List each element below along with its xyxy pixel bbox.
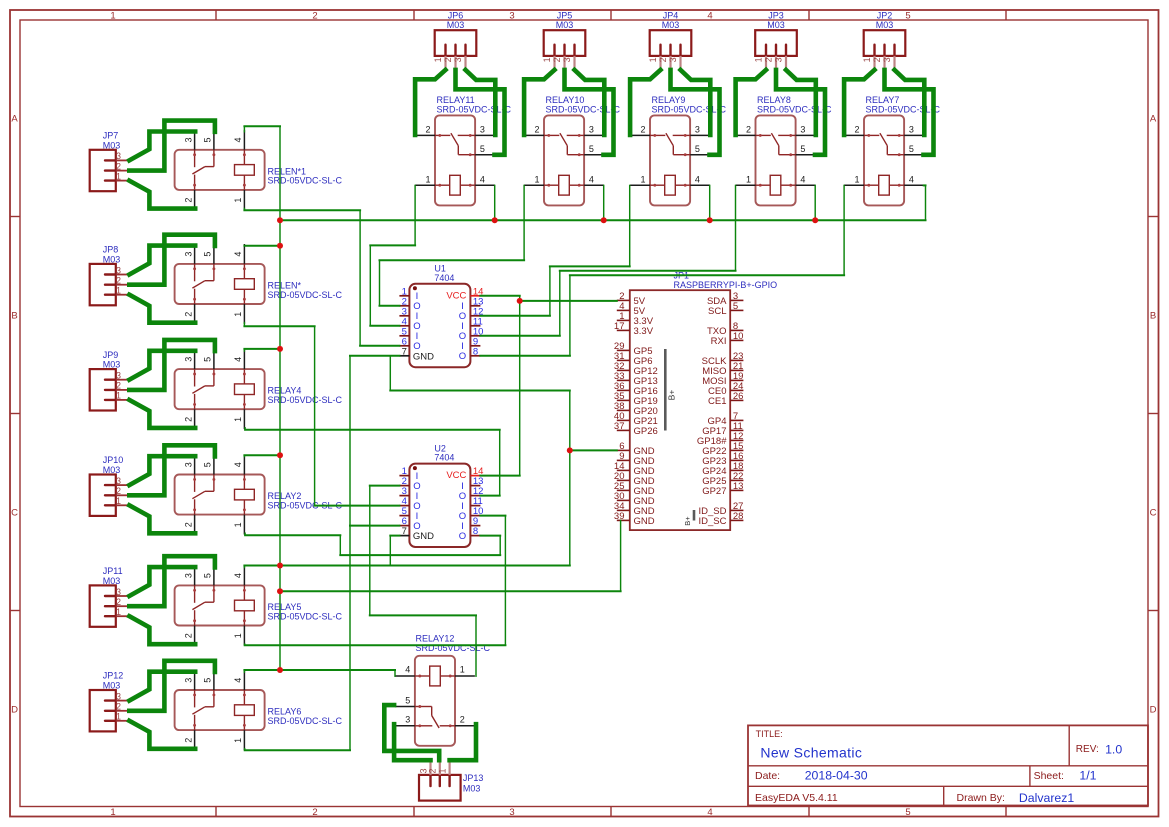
relay RELAY10 SRD-05VDC-SL-C (524, 95, 620, 205)
wire RELEN*1 pin1 to U1 pin6 (243, 208, 400, 347)
svg-text:4: 4 (233, 252, 243, 257)
svg-text:3: 3 (183, 252, 193, 257)
junction VCC 5V (517, 298, 523, 304)
wire RELAY9 pin4 to bus (709, 185, 711, 221)
frame zone letters right (1150, 113, 1157, 715)
svg-text:4: 4 (233, 137, 243, 142)
wire JP11 pin1 to RELAY5 pin2 (129, 616, 195, 644)
junction RELAY5 pin4 rail (277, 563, 283, 569)
wire JP4 pin3 to RELAY9 pin3 (681, 70, 711, 135)
junction GND rail x bus (277, 217, 283, 223)
wire JP3 pin3 to RELAY8 pin3 (786, 70, 816, 135)
wire RELAY11 pin1 to U1 pin4 (369, 185, 416, 327)
junction RELAY8 pin4 bus (812, 217, 818, 223)
wire JP6 pin1 to RELAY11 pin2 (415, 70, 445, 135)
wire GND bus to relay pin4 row (279, 185, 927, 221)
svg-text:2: 2 (312, 11, 317, 22)
frame ticks left (10, 217, 20, 611)
svg-text:B: B (11, 310, 17, 321)
svg-text:3: 3 (183, 573, 193, 578)
svg-text:1: 1 (110, 11, 115, 22)
op-amp U2 (7404 hex inverter) (399, 443, 483, 547)
svg-text:3: 3 (509, 11, 514, 22)
svg-text:M03: M03 (662, 20, 680, 30)
wire to JP1 pin6 GND (569, 449, 618, 451)
svg-text:5: 5 (909, 144, 914, 154)
svg-text:4: 4 (707, 807, 712, 818)
svg-text:5: 5 (203, 678, 213, 683)
svg-text:1: 1 (233, 312, 243, 317)
wire JP8 pin1 to RELEN* pin2 (129, 295, 195, 323)
svg-text:JP8: JP8 (103, 245, 119, 255)
svg-text:5: 5 (203, 137, 213, 142)
svg-text:1: 1 (233, 738, 243, 743)
svg-text:4: 4 (233, 573, 243, 578)
svg-text:Sheet:: Sheet: (1034, 770, 1064, 782)
wire VCC U1 pin14 to U2 pin14 and JP1 5V (479, 295, 520, 476)
frame zone letters left (11, 113, 18, 715)
svg-text:3: 3 (589, 125, 594, 135)
junction RELAY2 pin4 rail (277, 452, 283, 458)
svg-text:4: 4 (480, 174, 485, 184)
svg-text:26: 26 (733, 391, 744, 402)
svg-text:5: 5 (480, 144, 485, 154)
junction RELAY10 pin4 bus (601, 217, 607, 223)
svg-text:M03: M03 (103, 681, 121, 691)
wire U2 pin2 to RELAY12 pin1 (369, 485, 477, 677)
svg-text:10: 10 (733, 331, 744, 342)
svg-text:1: 1 (233, 633, 243, 638)
svg-text:37: 37 (614, 421, 625, 432)
svg-text:4: 4 (695, 174, 700, 184)
svg-text:Drawn By:: Drawn By: (957, 792, 1005, 804)
relay RELAY11 SRD-05VDC-SL-C (415, 95, 511, 205)
svg-text:JP12: JP12 (103, 671, 124, 681)
svg-text:Date:: Date: (755, 770, 780, 782)
wire RELAY10 pin4 to bus (603, 185, 605, 221)
relay RELEN* SRD-05VDC-SL-C (175, 244, 343, 324)
wire RELAY6 pin1 to U1 pin7 net (244, 748, 351, 751)
svg-text:2: 2 (746, 125, 751, 135)
junction GND JP1 pin6 (567, 447, 573, 453)
svg-text:M03: M03 (103, 360, 121, 370)
wire RELAY11 pin4 to bus (494, 185, 496, 221)
svg-text:4: 4 (707, 11, 712, 22)
relay RELAY12 SRD-05VDC-SL-C (395, 634, 491, 746)
svg-text:JP11: JP11 (103, 566, 123, 576)
svg-text:SRD-05VDC-SL-C: SRD-05VDC-SL-C (546, 104, 621, 114)
svg-text:3: 3 (183, 357, 193, 362)
svg-text:GND: GND (413, 531, 434, 542)
svg-text:M03: M03 (463, 784, 481, 794)
svg-text:7: 7 (402, 346, 407, 357)
svg-text:M03: M03 (103, 465, 121, 475)
svg-text:3: 3 (800, 125, 805, 135)
wire RELAY2 pin1 to U2 pin8 (244, 532, 501, 555)
wire JP7 pin2 to RELEN*1 pin5 (129, 121, 215, 171)
frame ticks right (1148, 217, 1159, 611)
relay RELAY6 SRD-05VDC-SL-C (175, 670, 343, 750)
svg-text:5: 5 (405, 695, 410, 705)
svg-text:JP9: JP9 (103, 350, 119, 360)
svg-text:B+: B+ (683, 516, 692, 526)
svg-text:5: 5 (905, 11, 910, 22)
wire JP12 pin3 to RELAY6 pin3 (129, 672, 195, 701)
svg-text:ID_SC: ID_SC (699, 516, 727, 527)
junction RELAY11 pin4 bus (492, 217, 498, 223)
svg-text:SRD-05VDC-SL-C: SRD-05VDC-SL-C (268, 290, 343, 300)
wire JP4 pin2 to RELAY9 pin5 (671, 70, 720, 155)
svg-text:O: O (459, 531, 466, 542)
wire JP5 pin1 to RELAY10 pin2 (524, 70, 554, 135)
wire JP4 pin1 to RELAY9 pin2 (630, 70, 660, 135)
svg-text:5: 5 (589, 144, 594, 154)
svg-text:2: 2 (425, 125, 430, 135)
svg-text:1: 1 (460, 665, 465, 675)
svg-text:3: 3 (183, 462, 193, 467)
svg-text:4: 4 (800, 174, 805, 184)
svg-text:4: 4 (233, 462, 243, 467)
svg-text:3: 3 (695, 125, 700, 135)
svg-text:RASPBERRYPI-B+-GPIO: RASPBERRYPI-B+-GPIO (674, 280, 778, 290)
connector JP8 (M03) (90, 245, 130, 306)
svg-text:SRD-05VDC-SL-C: SRD-05VDC-SL-C (268, 716, 343, 726)
connector JP11 (M03) (90, 566, 130, 627)
svg-text:3: 3 (183, 678, 193, 683)
relay RELAY5 SRD-05VDC-SL-C (175, 566, 343, 646)
svg-text:2: 2 (183, 198, 193, 203)
svg-text:1: 1 (233, 522, 243, 527)
svg-text:B+: B+ (667, 390, 677, 401)
svg-text:JP13: JP13 (463, 773, 484, 783)
wire JP2 pin2 to RELAY7 pin5 (885, 70, 934, 155)
svg-text:2: 2 (183, 633, 193, 638)
frame zone numbers bottom (110, 807, 910, 818)
wire JP12 pin2 to RELAY6 pin5 (129, 661, 215, 711)
connector JP12 (M03) (90, 671, 130, 732)
wire JP8 pin2 to RELEN* pin5 (129, 235, 215, 285)
svg-text:5: 5 (203, 252, 213, 257)
svg-text:2018-04-30: 2018-04-30 (805, 768, 868, 782)
wire RELAY12 pin5 to JP13 pin2 (384, 705, 439, 760)
svg-text:M03: M03 (447, 20, 465, 30)
svg-text:CE1: CE1 (708, 396, 726, 407)
svg-text:D: D (11, 704, 18, 715)
junction RELAY6 RELAY12 pin4 rail (277, 667, 283, 673)
svg-text:1: 1 (854, 174, 859, 184)
svg-text:2: 2 (854, 125, 859, 135)
svg-text:1: 1 (233, 417, 243, 422)
svg-text:2: 2 (183, 738, 193, 743)
frame ticks bottom (216, 807, 1006, 817)
svg-text:M03: M03 (767, 20, 785, 30)
svg-text:GP26: GP26 (634, 426, 658, 437)
wire JP2 pin1 to RELAY7 pin2 (844, 70, 874, 135)
wire RELAY10 pin1 to U1 pin2 (379, 185, 526, 307)
svg-text:2: 2 (534, 125, 539, 135)
wire JP3 pin2 to RELAY8 pin5 (776, 70, 825, 155)
svg-text:4: 4 (909, 174, 914, 184)
svg-text:3: 3 (509, 807, 514, 818)
wire JP11 pin2 to RELAY5 pin5 (129, 556, 215, 606)
wire JP9 pin1 to RELAY4 pin2 (129, 400, 195, 428)
relay RELAY2 SRD-05VDC-SL-C (175, 455, 343, 535)
frame ticks top (216, 10, 1006, 20)
svg-text:D: D (1150, 704, 1157, 715)
svg-text:13: 13 (733, 481, 744, 492)
svg-text:EasyEDA V5.4.11: EasyEDA V5.4.11 (755, 792, 838, 804)
wire JP1 pin39 GND down-left (279, 520, 622, 592)
connector JP13 (M03) (418, 760, 483, 800)
svg-text:7404: 7404 (434, 273, 454, 283)
wire JP10 pin1 to RELAY2 pin2 (129, 505, 195, 533)
svg-text:Dalvarez1: Dalvarez1 (1019, 791, 1075, 805)
svg-text:New Schematic: New Schematic (760, 745, 862, 761)
wire vertical GND rail left (279, 126, 281, 671)
wire JP11 pin3 to RELAY5 pin3 (129, 567, 195, 596)
wire JP7 pin1 to RELEN*1 pin2 (129, 181, 195, 209)
svg-text:M03: M03 (103, 255, 121, 265)
wire RELAY7 pin1 to U1 pin8 (479, 185, 845, 357)
svg-text:1: 1 (534, 174, 539, 184)
svg-text:RELAY12: RELAY12 (416, 634, 455, 644)
junction GND rail JP1 pin39 (277, 588, 283, 594)
svg-text:SRD-05VDC-SL-C: SRD-05VDC-SL-C (757, 104, 832, 114)
junction RELAY9 pin4 bus (707, 217, 713, 223)
wire RELAY12 pin2 to JP13 pin1 (450, 724, 476, 760)
svg-text:1: 1 (425, 174, 430, 184)
svg-text:GND: GND (634, 516, 655, 527)
svg-text:2: 2 (183, 522, 193, 527)
svg-text:M03: M03 (103, 576, 121, 586)
wire RELAY9 pin1 to U1 pin12 (479, 185, 630, 317)
frame zone numbers top (110, 11, 910, 22)
svg-text:B: B (1150, 310, 1156, 321)
svg-text:JP7: JP7 (103, 131, 119, 141)
svg-text:SRD-05VDC-SL-C: SRD-05VDC-SL-C (268, 395, 343, 405)
wire JP3 pin1 to RELAY8 pin2 (736, 70, 766, 135)
svg-text:4: 4 (589, 174, 594, 184)
wire RELAY5 pin4 to U1 GND net (243, 565, 570, 568)
wire RELAY8 pin1 to U1 pin10 (479, 185, 736, 337)
title text (755, 729, 1122, 805)
wire U1 GND to JP1 GND (389, 355, 571, 566)
svg-text:1: 1 (746, 174, 751, 184)
svg-text:4: 4 (405, 665, 410, 675)
svg-text:3: 3 (480, 125, 485, 135)
svg-text:C: C (11, 507, 18, 518)
wire U1 pin7 GND net vertical (349, 355, 400, 751)
connector JP6 (M03) (433, 11, 476, 70)
svg-text:1: 1 (640, 174, 645, 184)
svg-text:3.3V: 3.3V (634, 326, 654, 337)
svg-text:4: 4 (233, 678, 243, 683)
op-amp U1 (7404 hex inverter) (399, 264, 483, 368)
svg-text:3: 3 (183, 137, 193, 142)
relay RELAY8 SRD-05VDC-SL-C (736, 95, 832, 205)
connector JP10 (M03) (90, 455, 130, 516)
svg-text:VCC: VCC (446, 470, 466, 481)
svg-text:SRD-05VDC-SL-C: SRD-05VDC-SL-C (268, 611, 343, 621)
svg-text:5: 5 (695, 144, 700, 154)
svg-text:REV:: REV: (1076, 744, 1099, 755)
wire RELAY5 pin1 to U2 pin10 (244, 515, 507, 646)
svg-text:8: 8 (473, 526, 478, 537)
svg-text:5: 5 (800, 144, 805, 154)
wire branch to U2 pin6 (349, 525, 400, 527)
relay RELAY4 SRD-05VDC-SL-C (175, 349, 343, 429)
svg-text:1: 1 (110, 807, 115, 818)
svg-text:5: 5 (203, 357, 213, 362)
wire JP7 pin3 to RELEN*1 pin3 (129, 132, 195, 161)
svg-text:VCC: VCC (446, 290, 466, 301)
svg-text:39: 39 (614, 511, 625, 522)
svg-text:7: 7 (402, 526, 407, 537)
svg-text:5: 5 (203, 462, 213, 467)
svg-text:2: 2 (460, 715, 465, 725)
svg-text:SRD-05VDC-SL-C: SRD-05VDC-SL-C (866, 104, 941, 114)
relay RELAY9 SRD-05VDC-SL-C (630, 95, 726, 205)
svg-text:GP27: GP27 (702, 486, 726, 497)
wire JP12 pin1 to RELAY6 pin2 (129, 721, 195, 749)
svg-text:2: 2 (312, 807, 317, 818)
svg-text:1.0: 1.0 (1105, 742, 1122, 756)
svg-text:C: C (1150, 507, 1157, 518)
svg-text:17: 17 (614, 321, 625, 332)
wire RELAY4 pin1 to U2 pin12 (244, 427, 501, 496)
junction RELAY4 pin4 rail (277, 346, 283, 352)
wire RELEN* pin1 to U2 pin4 (243, 322, 400, 506)
svg-text:GND: GND (413, 351, 434, 362)
wire JP9 pin2 to RELAY4 pin5 (129, 340, 215, 390)
svg-text:1/1: 1/1 (1079, 768, 1096, 782)
svg-text:28: 28 (733, 511, 744, 522)
wire JP6 pin3 to RELAY11 pin3 (466, 70, 496, 135)
svg-text:TITLE:: TITLE: (756, 729, 783, 739)
connector JP2 (M03) (862, 11, 905, 70)
svg-text:SRD-05VDC-SL-C: SRD-05VDC-SL-C (437, 104, 512, 114)
svg-text:4: 4 (233, 357, 243, 362)
wire RELAY2 pin4 to rail (243, 455, 281, 458)
wire RELEN*1 pin4 to rail (243, 126, 281, 133)
svg-text:5: 5 (733, 301, 738, 312)
wire JP6 pin2 to RELAY11 pin5 (456, 70, 505, 155)
title block (748, 725, 1148, 805)
wire RELAY12 pin3 to JP13 pin3 (394, 724, 430, 760)
svg-text:JP10: JP10 (103, 455, 124, 465)
connector JP4 (M03) (648, 11, 691, 70)
wire JP2 pin3 to RELAY7 pin3 (895, 70, 925, 135)
svg-text:M03: M03 (556, 20, 574, 30)
wire JP5 pin3 to RELAY10 pin3 (575, 70, 605, 135)
svg-text:SRD-05VDC-SL-C: SRD-05VDC-SL-C (268, 176, 343, 186)
svg-text:SCL: SCL (708, 306, 726, 317)
svg-text:O: O (459, 351, 466, 362)
svg-text:2: 2 (640, 125, 645, 135)
relay RELEN*1 SRD-05VDC-SL-C (175, 130, 343, 210)
wire VCC to JP1 pin2 5V (519, 300, 618, 302)
wire JP5 pin2 to RELAY10 pin5 (565, 70, 614, 155)
wire JP10 pin2 to RELAY2 pin5 (129, 445, 215, 495)
svg-text:1: 1 (233, 198, 243, 203)
junction RELEN* pin4 rail (277, 243, 283, 249)
connector JP5 (M03) (542, 11, 585, 70)
wire RELEN* pin4 to rail (243, 245, 281, 247)
svg-text:M03: M03 (103, 140, 121, 150)
connector JP7 (M03) (90, 131, 130, 192)
svg-text:5: 5 (905, 807, 910, 818)
svg-text:7404: 7404 (434, 453, 454, 463)
svg-text:5: 5 (203, 573, 213, 578)
svg-text:M03: M03 (876, 20, 894, 30)
wire JP9 pin3 to RELAY4 pin3 (129, 351, 195, 380)
wire JP8 pin3 to RELEN* pin3 (129, 246, 195, 275)
wire RELAY6 pin4 and RELAY12 pin4 to rail (243, 669, 396, 677)
connector JP3 (M03) (754, 11, 797, 70)
wire RELAY4 pin4 to rail (243, 348, 281, 352)
relay RELAY7 SRD-05VDC-SL-C (844, 95, 940, 205)
wire RELAY8 pin4 to bus (814, 185, 816, 221)
wire JP10 pin3 to RELAY2 pin3 (129, 456, 195, 485)
svg-text:A: A (11, 113, 18, 124)
svg-text:2: 2 (183, 312, 193, 317)
svg-text:RXI: RXI (711, 336, 727, 347)
svg-text:3: 3 (909, 125, 914, 135)
svg-text:A: A (1150, 113, 1157, 124)
connector JP1 RASPBERRYPI-B+-GPIO (614, 271, 777, 530)
svg-text:8: 8 (473, 346, 478, 357)
connector JP9 (M03) (90, 350, 130, 411)
wire U2 GND down (389, 535, 400, 566)
svg-text:2: 2 (183, 417, 193, 422)
svg-text:SRD-05VDC-SL-C: SRD-05VDC-SL-C (652, 104, 727, 114)
svg-text:3: 3 (405, 715, 410, 725)
